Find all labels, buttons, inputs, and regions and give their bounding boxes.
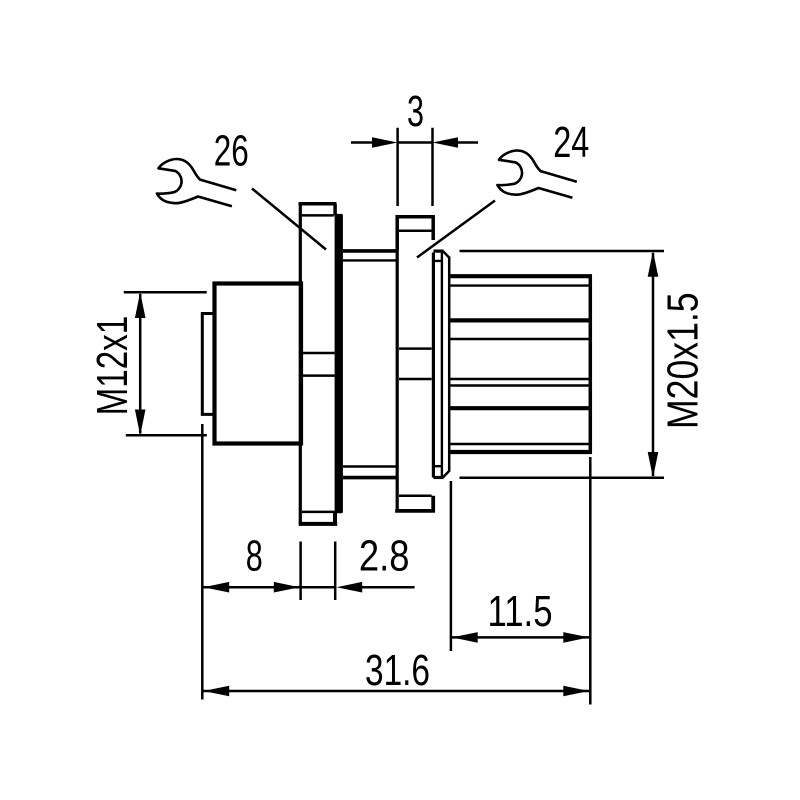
washer top chamfer (443, 251, 450, 258)
dim 8: dimension line and arrows (204, 586, 300, 589)
washer bottom chamfer (443, 471, 450, 478)
dim 11.5: extension lines (450, 481, 453, 651)
dim 3: extension lines (396, 128, 399, 206)
svg-text:26: 26 (214, 128, 249, 176)
hex nut 26 top cap (299, 204, 337, 216)
dim M20x1.5: extension lines (460, 250, 665, 253)
dim 8 / 2.8: extension lines (201, 424, 204, 700)
connector plug tip (M12 front) (202, 314, 214, 415)
leader line to nut 24 (417, 201, 495, 258)
wrench icon 24 (497, 150, 576, 197)
dim 31.6: dimension line and arrows (204, 690, 590, 693)
hex nut 26 front face bar (335, 214, 343, 513)
svg-text:31.6: 31.6 (365, 647, 430, 695)
wrench icon 26 (157, 159, 236, 206)
hex nut 24 bottom cap (399, 494, 432, 497)
mid body upper lines (343, 249, 397, 253)
svg-text:24: 24 (553, 119, 589, 167)
svg-text:2.8: 2.8 (359, 533, 410, 581)
hex nut 26 wrench flat lines (302, 352, 335, 355)
dim M20x1.5: dimension line and arrows (652, 253, 655, 476)
svg-text:11.5: 11.5 (488, 588, 553, 636)
hex nut 24 wrench flat lines (399, 347, 432, 350)
thread lines (450, 284, 588, 286)
connector plug body (215, 284, 302, 444)
dim M12x1: extension lines (124, 291, 207, 294)
hex nut 24 body edges (396, 230, 399, 513)
sealing washer (441, 252, 443, 478)
mid body lower lines (343, 465, 396, 467)
leader line to nut 26 (252, 189, 326, 250)
hex nut 26 left edge (299, 203, 302, 525)
hex nut 26 bottom cap (302, 511, 335, 514)
svg-text:3: 3 (407, 88, 424, 136)
dim 2.8: dimension line and arrow (302, 586, 335, 589)
svg-text:M20x1.5: M20x1.5 (660, 292, 708, 429)
dim 11.5: dimension line and arrows (452, 636, 589, 639)
svg-text:M12x1: M12x1 (89, 316, 137, 416)
svg-text:8: 8 (246, 533, 263, 581)
dim M12x1: dimension line and arrows (139, 294, 142, 434)
dim 3: dimension line and arrows (351, 141, 372, 144)
hex nut 24 top cap (397, 217, 433, 250)
M20 thread block outer edges (450, 274, 592, 278)
